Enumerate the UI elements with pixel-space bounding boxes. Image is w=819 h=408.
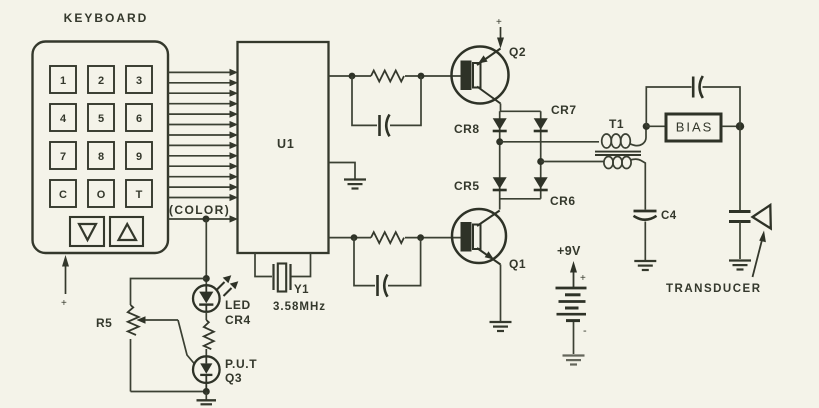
junction dot CR6 node xyxy=(537,158,544,165)
resistor R5 xyxy=(128,305,139,335)
svg-text:Y1: Y1 xyxy=(294,284,309,296)
junction dot bottom-left xyxy=(351,234,358,241)
svg-text:T1: T1 xyxy=(609,117,624,131)
svg-text:7: 7 xyxy=(60,151,66,163)
wire R5 branch top xyxy=(131,279,207,306)
ground under Q1 xyxy=(490,322,512,331)
wire Q1 emitter to ground xyxy=(500,265,502,322)
svg-text:3.58MHz: 3.58MHz xyxy=(273,301,326,313)
wire U1 to ground xyxy=(329,163,356,180)
crystal Y1 xyxy=(274,264,291,292)
wire transducer to ground xyxy=(739,222,741,260)
wire keyboard row 10 xyxy=(168,163,238,170)
label TRANSDUCER with pointer arrow xyxy=(666,231,766,296)
transformer T1 primary xyxy=(602,129,646,148)
resistor LED-PUT xyxy=(204,320,214,349)
battery arrow xyxy=(570,261,586,287)
svg-text:+: + xyxy=(496,17,502,28)
ground under C4 xyxy=(634,261,656,270)
button 8 xyxy=(88,142,114,169)
transducer xyxy=(729,205,771,229)
svg-text:CR7: CR7 xyxy=(551,103,577,117)
diode CR6 xyxy=(534,177,548,190)
keyboard body xyxy=(33,42,169,254)
ground under U1 xyxy=(344,180,366,189)
wire U1 to crystal left xyxy=(255,253,272,277)
wire diode left column xyxy=(499,111,501,209)
capacitor bottom base xyxy=(378,275,388,297)
junction dot top-right xyxy=(418,73,425,80)
button 6 xyxy=(126,104,152,131)
button 3 xyxy=(126,66,152,93)
wire COLOR line xyxy=(168,215,238,222)
wire bypass cap left leg xyxy=(646,87,691,126)
wire CR8 node to T1 primary xyxy=(500,141,599,143)
transistor Q1 xyxy=(452,209,506,265)
junction dot PUT ground xyxy=(203,388,210,395)
wire bottom cap branch xyxy=(354,238,375,286)
button 9 xyxy=(126,142,152,169)
ground under battery xyxy=(563,356,585,365)
wire bypass cap right leg xyxy=(703,87,741,126)
junction dot top-left xyxy=(349,73,356,80)
wire resistor to PUT xyxy=(205,349,207,356)
transformer T1 secondary xyxy=(604,157,645,210)
ground under PUT xyxy=(197,392,217,405)
transformer T1 core xyxy=(595,152,641,155)
wire keyboard row 8 xyxy=(168,142,238,149)
wire keyboard row 11 xyxy=(168,173,238,180)
button 7 xyxy=(50,142,76,169)
wire diode right column xyxy=(540,111,542,199)
svg-text:1: 1 xyxy=(60,75,66,87)
wire keyboard row 4 xyxy=(168,100,238,107)
svg-text:C: C xyxy=(59,189,67,201)
svg-text:TRANSDUCER: TRANSDUCER xyxy=(666,283,762,295)
junction dot LED top node xyxy=(203,275,210,282)
LED light arrows xyxy=(217,275,239,296)
svg-text:CR5: CR5 xyxy=(454,179,480,193)
diode CR7 xyxy=(534,118,548,131)
wire keyboard row 5 xyxy=(168,111,238,118)
wire battery to ground xyxy=(573,322,575,354)
svg-text:C4: C4 xyxy=(661,210,677,222)
wire keyboard row 9 xyxy=(168,152,238,159)
svg-text:BIAS: BIAS xyxy=(676,120,714,135)
PUT Q3 xyxy=(193,356,220,391)
svg-text:4: 4 xyxy=(60,113,67,125)
svg-text:LED: LED xyxy=(225,298,251,312)
svg-text:-: - xyxy=(583,325,587,337)
svg-text:+9V: +9V xyxy=(557,244,581,258)
button O xyxy=(88,180,114,207)
button C xyxy=(50,180,76,207)
button 2 xyxy=(88,66,114,93)
diode CR8 xyxy=(493,118,507,131)
junction dot bottom-right xyxy=(417,234,424,241)
wire R5 lower xyxy=(130,339,132,392)
wire Q2 emitter down xyxy=(501,104,541,112)
svg-text:U1: U1 xyxy=(277,137,295,151)
LED CR4 xyxy=(193,285,220,312)
wire C4 to ground xyxy=(644,222,646,261)
keyboard power arrow + xyxy=(61,255,69,309)
IC U1 xyxy=(238,42,329,253)
wire keyboard row 1 xyxy=(168,69,238,76)
svg-text:CR8: CR8 xyxy=(454,122,480,136)
svg-text:9: 9 xyxy=(136,151,142,163)
svg-text:Q2: Q2 xyxy=(509,45,526,59)
button 4 xyxy=(50,104,76,131)
BIAS box xyxy=(666,114,721,141)
svg-text:KEYBOARD: KEYBOARD xyxy=(64,11,149,25)
wire crystal right to U1 xyxy=(292,253,311,277)
svg-text:8: 8 xyxy=(98,151,104,163)
svg-text:O: O xyxy=(97,189,106,201)
wire bottom return xyxy=(131,391,207,393)
transistor Q2 xyxy=(452,47,509,104)
svg-text:P.U.T: P.U.T xyxy=(225,357,257,371)
svg-text:+: + xyxy=(580,273,586,284)
wire U1 to Q2 base xyxy=(329,75,372,77)
svg-text:5: 5 xyxy=(98,113,104,125)
button up-arrow xyxy=(110,217,143,246)
svg-text:CR6: CR6 xyxy=(550,194,576,208)
wire U1 to Q1 base xyxy=(329,237,372,239)
wire right node to transducer xyxy=(739,126,741,210)
junction COLOR node xyxy=(203,216,210,223)
capacitor top base xyxy=(380,115,390,137)
wire keyboard row 6 xyxy=(168,121,238,128)
R5 wiper arrow xyxy=(137,316,196,364)
wire keyboard row 2 xyxy=(168,79,238,86)
diode CR5 xyxy=(493,177,507,190)
wire keyboard row 12 xyxy=(168,184,238,191)
svg-text:6: 6 xyxy=(136,113,142,125)
wire top cap branch xyxy=(352,76,377,125)
button 1 xyxy=(50,66,76,93)
wire keyboard row 13 xyxy=(168,194,238,201)
wire BIAS to right node xyxy=(722,125,740,127)
supply + arrow above Q2 xyxy=(496,17,504,49)
battery B1 xyxy=(556,288,588,337)
svg-text:+: + xyxy=(61,298,67,309)
wire CR6 node to T1 secondary xyxy=(541,161,604,163)
svg-text:2: 2 xyxy=(98,75,104,87)
wire LED to resistor xyxy=(205,312,207,320)
junction dot T1 right xyxy=(643,123,650,130)
svg-text:3: 3 xyxy=(136,75,142,87)
button 5 xyxy=(88,104,114,131)
svg-text:Q1: Q1 xyxy=(509,257,526,271)
resistor top base xyxy=(371,71,404,82)
wire COLOR node to LED xyxy=(205,219,207,286)
button down-arrow xyxy=(70,217,104,246)
wire diode bottom join xyxy=(500,198,541,200)
svg-text:CR4: CR4 xyxy=(225,313,251,327)
capacitor C4 xyxy=(634,211,657,220)
wire keyboard row 3 xyxy=(168,90,238,97)
svg-text:T: T xyxy=(136,189,143,201)
svg-text:R5: R5 xyxy=(96,316,112,330)
junction dot CR8 node xyxy=(496,138,503,145)
button T xyxy=(126,180,152,207)
resistor bottom base xyxy=(371,232,404,243)
svg-text:(COLOR): (COLOR) xyxy=(169,203,230,217)
wire keyboard row 7 xyxy=(168,131,238,138)
capacitor bypass xyxy=(693,76,703,98)
ground under transducer xyxy=(729,261,751,270)
junction dot right node xyxy=(736,122,744,130)
wire dot to BIAS xyxy=(646,125,666,127)
svg-text:Q3: Q3 xyxy=(225,371,242,385)
